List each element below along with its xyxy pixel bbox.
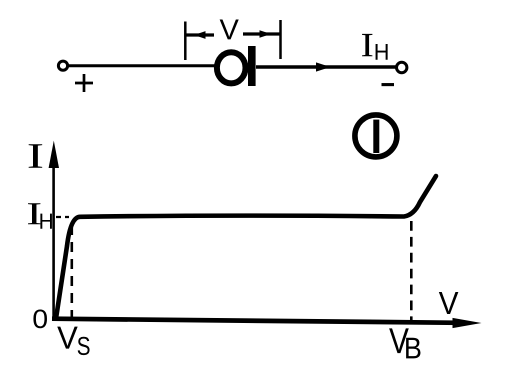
V measurement right arrow [243,30,280,38]
plus sign [75,74,93,92]
label V (x axis) [439,292,459,314]
V measurement left arrow [186,31,214,39]
current regulator diode D1 [217,46,256,86]
label IH (holding current level) [28,203,52,228]
terminal right (-) [397,62,407,72]
terminal left (+) [58,61,67,70]
label VB (breakover voltage) [389,328,420,358]
y axis (current axis) [49,141,59,321]
label V (measured voltage) [220,19,239,39]
dashed VB vertical line [410,221,413,321]
dashed IH level line [56,216,69,218]
wire right segment with current arrow [256,62,396,71]
dashed VS vertical line [71,225,74,317]
label IH (current) [362,34,388,60]
label 0 (origin) [33,309,47,328]
wire left segment [68,64,217,67]
label I (y axis) [29,144,43,168]
V measurement left tick [184,22,187,61]
I-V characteristic curve [56,176,436,319]
x axis (voltage axis) [52,318,482,328]
label VS (threshold voltage) [57,327,89,356]
V measurement right tick [279,20,282,59]
minus sign [382,83,395,86]
figure number 1 [355,115,397,157]
